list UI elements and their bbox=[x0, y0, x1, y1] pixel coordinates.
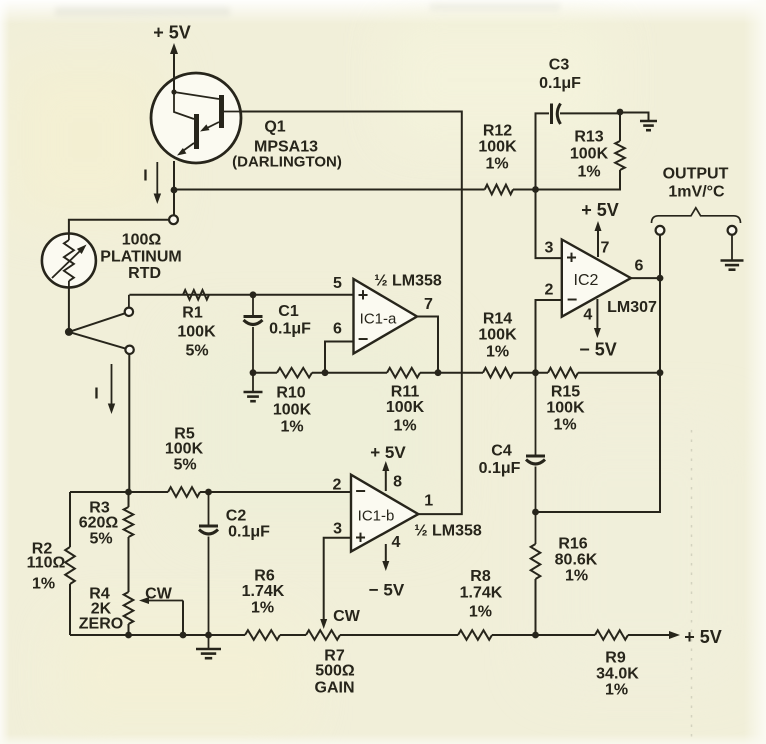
faint scan artifact dotted line bbox=[691, 430, 693, 738]
junction bbox=[657, 275, 664, 282]
wire lower connector down to R5 node bbox=[128, 354, 130, 492]
svg-text:GAIN: GAIN bbox=[315, 680, 355, 697]
Q1 transistor circle bbox=[151, 73, 241, 163]
svg-text:R1: R1 bbox=[182, 305, 203, 322]
svg-text:+ 5V: + 5V bbox=[684, 627, 722, 647]
junction bbox=[532, 186, 539, 193]
output terminal - bbox=[728, 226, 737, 235]
svg-text:1%: 1% bbox=[485, 156, 508, 173]
svg-text:C2: C2 bbox=[226, 508, 247, 525]
svg-text:R14: R14 bbox=[483, 311, 512, 328]
junction bbox=[322, 369, 329, 376]
svg-text:100K: 100K bbox=[177, 324, 216, 341]
svg-text:1mV/°C: 1mV/°C bbox=[668, 184, 725, 201]
svg-text:½ LM358: ½ LM358 bbox=[374, 273, 442, 290]
svg-text:100K: 100K bbox=[570, 146, 609, 163]
svg-text:+ 5V: + 5V bbox=[153, 23, 191, 43]
svg-text:100K: 100K bbox=[165, 441, 204, 458]
wire IC1-a output pin7 bbox=[417, 317, 438, 373]
wire RTD bottom to 3-way node bbox=[68, 287, 70, 332]
IC2 +5V arrow pin 7 bbox=[597, 230, 599, 257]
svg-text:100K: 100K bbox=[546, 400, 585, 417]
svg-text:0.1μF: 0.1μF bbox=[539, 75, 581, 92]
svg-text:7: 7 bbox=[601, 240, 610, 257]
capacitor C3 0.1uF bbox=[536, 113, 550, 189]
connector circle (to R5 node) bbox=[125, 346, 133, 354]
resistor R16 80.6K 1% bbox=[531, 544, 541, 579]
svg-text:8: 8 bbox=[393, 473, 402, 490]
wire +5V into Q1 collector bbox=[173, 52, 175, 76]
svg-text:+: + bbox=[358, 285, 369, 305]
wire node to lower connector bbox=[69, 332, 126, 349]
svg-text:500Ω: 500Ω bbox=[315, 663, 355, 680]
svg-text:− 5V: − 5V bbox=[369, 581, 405, 600]
svg-text:1%: 1% bbox=[553, 417, 576, 434]
svg-text:IC1-b: IC1-b bbox=[358, 508, 395, 525]
output terminal + bbox=[656, 226, 665, 235]
svg-text:C4: C4 bbox=[491, 443, 512, 460]
potentiometer R7 500ohm GAIN bbox=[306, 630, 340, 640]
svg-text:100Ω: 100Ω bbox=[122, 231, 162, 248]
svg-text:0.1μF: 0.1μF bbox=[479, 460, 521, 477]
resistor R6 1.74K 1% bbox=[245, 630, 280, 640]
svg-text:R12: R12 bbox=[483, 123, 512, 140]
svg-text:1%: 1% bbox=[280, 419, 303, 436]
svg-text:0.1μF: 0.1μF bbox=[269, 321, 311, 338]
resistor R9 34.0K 1% bbox=[595, 630, 628, 640]
junction bbox=[205, 489, 212, 496]
ground (bottom rail) bbox=[208, 635, 210, 648]
resistor R2 110ohm 1% bbox=[65, 547, 75, 584]
junction bbox=[532, 369, 539, 376]
ground (C1/R10 node) bbox=[252, 373, 254, 392]
junction bbox=[125, 632, 132, 639]
svg-text:LM307: LM307 bbox=[607, 299, 657, 316]
wire feedback row y=372.7 (R10,R11,R14,R15) bbox=[253, 372, 277, 374]
svg-text:+: + bbox=[355, 528, 366, 548]
svg-text:4: 4 bbox=[583, 307, 592, 324]
capacitor C4 0.1uF bbox=[535, 373, 537, 455]
svg-text:6: 6 bbox=[635, 258, 644, 275]
svg-text:2: 2 bbox=[545, 282, 554, 299]
svg-text:I: I bbox=[94, 386, 98, 403]
IC1-b +5V arrow pin 8 bbox=[385, 470, 387, 491]
platinum RTD circle bbox=[42, 234, 96, 288]
svg-text:C1: C1 bbox=[278, 303, 299, 320]
svg-text:R8: R8 bbox=[470, 568, 491, 585]
wire Q1 emitter down bbox=[173, 161, 175, 215]
wire right terminal to ground bbox=[731, 235, 733, 260]
svg-text:1%: 1% bbox=[393, 418, 416, 435]
svg-text:6: 6 bbox=[333, 320, 342, 337]
svg-text:R11: R11 bbox=[391, 384, 420, 401]
ground (output terminal) bbox=[721, 259, 744, 262]
wire upper connector to pin5 row bbox=[128, 295, 130, 308]
resistor R14 100K 1% bbox=[483, 368, 513, 378]
wire node to upper connector bbox=[69, 313, 125, 332]
svg-text:3: 3 bbox=[545, 240, 554, 257]
svg-text:R9: R9 bbox=[605, 650, 626, 667]
junction bbox=[171, 187, 178, 194]
wire IC1-a pin5 input row bbox=[129, 294, 353, 296]
wire IC2 pin 2 down to R14/R15 node bbox=[536, 300, 562, 373]
wire node A down to IC2 pin 3 bbox=[536, 190, 562, 259]
IC2 -5V arrow pin 4 bbox=[596, 299, 598, 329]
connector open circle below Q1 bbox=[169, 215, 178, 224]
resistor R3 620ohm 5% bbox=[124, 507, 134, 537]
wire RTD top to connector circle bbox=[69, 220, 168, 234]
svg-text:1%: 1% bbox=[32, 576, 55, 593]
svg-text:R13: R13 bbox=[574, 129, 603, 146]
wire IC2 output bbox=[631, 277, 660, 279]
svg-text:0.1μF: 0.1μF bbox=[228, 524, 270, 541]
wire R3 branch bbox=[128, 492, 130, 507]
svg-text:PLATINUM: PLATINUM bbox=[100, 248, 181, 265]
svg-text:+ 5V: + 5V bbox=[581, 200, 619, 220]
IC1-b -5V arrow pin 4 bbox=[385, 544, 387, 562]
resistor R15 100K 1% bbox=[548, 368, 578, 378]
R4 wiper arrow bbox=[148, 600, 183, 602]
wire R2 branch bbox=[69, 492, 71, 547]
junction bbox=[617, 109, 624, 116]
current arrow I (lower) bbox=[111, 364, 113, 405]
svg-text:3: 3 bbox=[333, 521, 342, 538]
svg-text:ZERO: ZERO bbox=[79, 616, 123, 633]
svg-text:1%: 1% bbox=[577, 164, 600, 181]
svg-text:OUTPUT: OUTPUT bbox=[663, 166, 729, 183]
svg-text:34.0K: 34.0K bbox=[596, 666, 639, 683]
wire R12 to R13 bottom corner bbox=[513, 170, 620, 190]
svg-text:R10: R10 bbox=[276, 385, 305, 402]
svg-text:½ LM358: ½ LM358 bbox=[414, 522, 482, 539]
svg-text:5: 5 bbox=[333, 275, 342, 292]
junction bbox=[250, 291, 257, 298]
op-amp IC1-a LM358 bbox=[354, 279, 418, 354]
svg-text:−: − bbox=[355, 481, 366, 501]
svg-text:CW: CW bbox=[145, 586, 173, 603]
svg-text:5%: 5% bbox=[173, 457, 196, 474]
svg-text:1.74K: 1.74K bbox=[460, 584, 503, 601]
svg-text:1%: 1% bbox=[251, 600, 274, 617]
current arrow I (upper) bbox=[156, 162, 158, 195]
svg-text:100K: 100K bbox=[478, 139, 517, 156]
capacitor C1 0.1uF bbox=[252, 295, 254, 316]
svg-text:5%: 5% bbox=[185, 343, 208, 360]
resistor R5 100K 5% bbox=[168, 487, 200, 497]
svg-text:− 5V: − 5V bbox=[579, 339, 617, 359]
svg-text:CW: CW bbox=[333, 608, 361, 625]
Q1 darlington internals bbox=[173, 76, 175, 92]
svg-text:100K: 100K bbox=[273, 402, 312, 419]
wire output node up to terminal / down to feedback bbox=[536, 235, 661, 512]
svg-text:1: 1 bbox=[424, 493, 433, 510]
svg-text:+ 5V: + 5V bbox=[370, 443, 406, 462]
wire IC1-b pin 2 row y=492 bbox=[70, 491, 168, 493]
svg-text:110Ω: 110Ω bbox=[27, 555, 66, 572]
svg-text:RTD: RTD bbox=[128, 265, 161, 282]
wire Q1 base to IC1-b output (vertical x=462) bbox=[241, 112, 462, 515]
wire emitter node to R12 (y=189) bbox=[174, 189, 485, 191]
RTD internal zigzag + arrow bbox=[68, 234, 70, 240]
svg-text:2: 2 bbox=[333, 476, 342, 493]
resistor R12 100K 1% bbox=[485, 185, 513, 195]
junction bbox=[65, 328, 73, 336]
junction bbox=[657, 369, 664, 376]
svg-text:100K: 100K bbox=[478, 327, 517, 344]
svg-text:R15: R15 bbox=[551, 384, 580, 401]
svg-text:80.6K: 80.6K bbox=[555, 552, 598, 569]
junction bbox=[435, 369, 442, 376]
op-amp IC1-b LM358 bbox=[351, 475, 418, 552]
junction bbox=[180, 632, 187, 639]
junction bbox=[205, 632, 212, 639]
svg-text:7: 7 bbox=[424, 296, 433, 313]
svg-text:620Ω: 620Ω bbox=[79, 515, 119, 532]
svg-text:IC1-a: IC1-a bbox=[360, 311, 397, 328]
svg-text:(DARLINGTON): (DARLINGTON) bbox=[232, 154, 342, 171]
svg-text:1%: 1% bbox=[469, 604, 492, 621]
capacitor C2 0.1uF bbox=[208, 492, 210, 525]
resistor R8 1.74K 1% bbox=[458, 630, 492, 640]
ground (C3/R13 node) bbox=[640, 120, 657, 123]
svg-text:100K: 100K bbox=[386, 399, 425, 416]
svg-text:1%: 1% bbox=[565, 568, 588, 585]
op-amp IC2 LM307 bbox=[562, 240, 631, 317]
output bracket with peak bbox=[652, 208, 741, 223]
svg-text:R6: R6 bbox=[254, 568, 275, 585]
bottom rail bbox=[70, 634, 245, 636]
svg-text:1%: 1% bbox=[486, 344, 509, 361]
junction bbox=[171, 89, 176, 94]
junction bbox=[532, 632, 539, 639]
potentiometer R4 2K ZERO bbox=[124, 592, 134, 624]
resistor R10 100K 1% bbox=[277, 368, 312, 378]
wire to ground top-right bbox=[620, 113, 649, 122]
svg-text:+: + bbox=[566, 248, 577, 268]
junction bbox=[125, 489, 132, 496]
wire IC1-b pin 3 to R7 wiper bbox=[324, 538, 351, 620]
junction bbox=[532, 509, 539, 516]
junction bbox=[250, 369, 257, 376]
svg-text:R16: R16 bbox=[558, 536, 587, 553]
svg-text:IC2: IC2 bbox=[574, 272, 599, 289]
wire IC1-a pin6 bbox=[325, 342, 354, 373]
svg-text:5%: 5% bbox=[89, 531, 112, 548]
svg-text:−: − bbox=[358, 329, 369, 349]
connector circle (to R1) bbox=[125, 308, 133, 316]
svg-text:4: 4 bbox=[392, 534, 401, 551]
svg-text:−: − bbox=[567, 290, 578, 310]
svg-text:1%: 1% bbox=[605, 682, 628, 699]
resistor R1 100K 5% bbox=[182, 289, 210, 300]
svg-text:Q1: Q1 bbox=[264, 119, 285, 136]
svg-text:I: I bbox=[143, 168, 147, 185]
svg-text:1.74K: 1.74K bbox=[242, 583, 285, 600]
svg-text:C3: C3 bbox=[549, 57, 570, 74]
resistor R11 100K 1% bbox=[387, 368, 420, 378]
resistor R13 100K 1% (vertical) bbox=[615, 141, 625, 170]
